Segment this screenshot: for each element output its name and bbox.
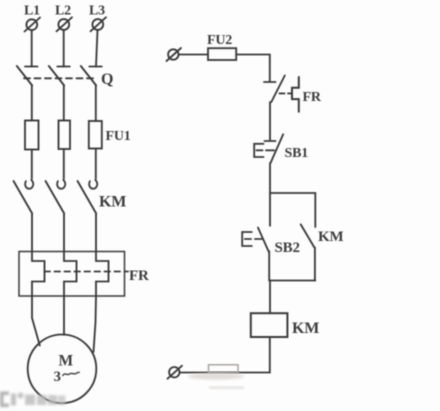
wire terminal to FU2	[179, 54, 209, 56]
terminal L2	[57, 17, 73, 31]
wire L1 to Q	[31, 30, 33, 66]
wire FU1 pole2 to KM	[63, 149, 65, 179]
svg-text:FR: FR	[129, 268, 149, 284]
wire KM pole2 to FR box	[63, 214, 65, 252]
FR contact link (dashed)	[280, 92, 292, 94]
wire Q pole3 to FU1	[95, 86, 97, 122]
svg-text:SB1: SB1	[285, 146, 309, 161]
svg-text:Q: Q	[101, 71, 113, 88]
switch Q linkage (dashed)	[24, 77, 97, 79]
svg-text:KM: KM	[318, 229, 343, 245]
wire SB1 to branch node	[269, 163, 271, 193]
wire Q pole1 to FU1	[31, 86, 33, 121]
FR heater element 1	[32, 252, 45, 297]
svg-text:L3: L3	[89, 4, 105, 19]
fuse FU1 pole 3	[89, 121, 102, 149]
thermal relay FR box	[19, 252, 125, 297]
wire FR contact to SB1	[269, 102, 271, 141]
FR heater element 2	[64, 252, 77, 297]
svg-text:FU1: FU1	[106, 129, 131, 144]
svg-text:SB2: SB2	[275, 240, 300, 256]
svg-text:FU2: FU2	[207, 33, 232, 48]
motor M circle	[28, 335, 97, 404]
svg-text:L1: L1	[24, 4, 40, 19]
contactor KM main contact pole 1	[14, 180, 34, 213]
terminal L3	[91, 17, 107, 31]
svg-text:FR: FR	[303, 90, 322, 105]
svg-text:3: 3	[54, 369, 61, 385]
wire FR to motor (middle)	[63, 296, 65, 335]
wire FU1 pole3 to KM	[95, 149, 97, 180]
bottom wire	[180, 372, 270, 374]
FR linkage (dashed)	[45, 271, 129, 273]
svg-text:KM: KM	[99, 194, 126, 211]
svg-text:M: M	[59, 353, 74, 370]
switch Q pole 2	[49, 66, 70, 86]
wire FR to motor (right)	[94, 296, 97, 352]
wire KM pole3 to FR box	[95, 214, 97, 252]
SB1 actuator	[254, 144, 274, 157]
FR heater element 3	[96, 252, 109, 297]
wire KM pole1 to FR box	[31, 214, 33, 252]
coil KM	[251, 313, 288, 337]
fuse FU1 pole 2	[59, 121, 71, 150]
switch Q pole 1	[17, 66, 38, 86]
contactor KM main contact pole 2	[46, 180, 66, 213]
wire Q pole2 to FU1	[63, 86, 65, 121]
fuse FU2	[208, 48, 236, 60]
watermark (blurred)	[0, 392, 66, 408]
start button SB2 (NO)	[258, 193, 270, 281]
wire L2 to Q	[63, 30, 65, 67]
ghost fuse smudge on bottom wire	[188, 365, 244, 389]
contactor KM auxiliary contact (NO)	[301, 224, 315, 280]
thermal relay FR contact (NC)	[264, 76, 285, 103]
SB2 actuator	[242, 232, 262, 246]
terminal L1	[25, 18, 41, 32]
wire FR to motor (left)	[32, 296, 40, 346]
control: supply terminal (top left)	[167, 48, 182, 61]
wire FU2 to corner	[236, 55, 270, 82]
svg-text:L2: L2	[55, 4, 71, 19]
fuse FU1 pole 1	[25, 121, 39, 150]
FR trip element symbol	[292, 77, 299, 112]
wire L3 to Q	[96, 30, 98, 67]
stop button SB1 (NC)	[265, 134, 284, 163]
wire KM coil to bottom	[269, 337, 271, 373]
control: supply terminal (bottom left)	[168, 366, 183, 379]
bottom of parallel branch	[270, 280, 315, 282]
wire branch to KM coil	[269, 281, 271, 314]
switch Q pole 3	[81, 66, 102, 86]
svg-text:KM: KM	[292, 320, 319, 337]
branch wire (top of parallel)	[270, 193, 315, 227]
wire FU1 pole1 to KM	[31, 150, 33, 180]
contactor KM main contact pole 3	[78, 180, 98, 213]
